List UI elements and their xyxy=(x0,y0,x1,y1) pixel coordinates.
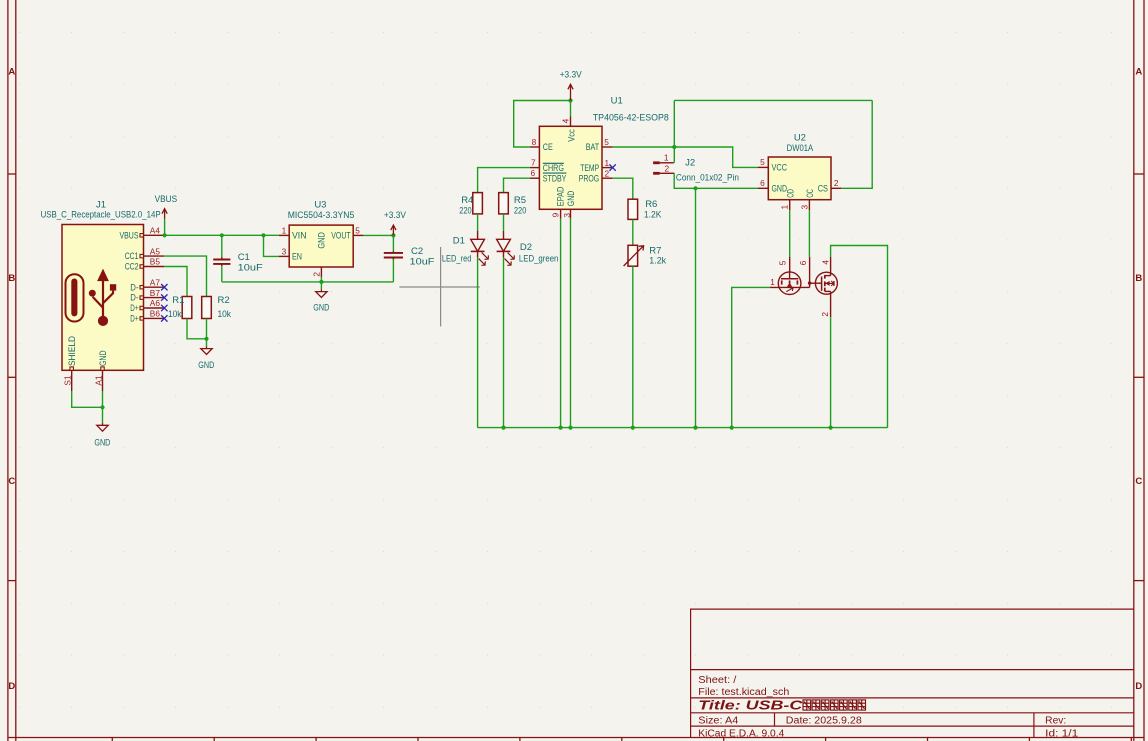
U1 pin 4 Vcc xyxy=(561,116,577,141)
svg-text:S1: S1 xyxy=(63,375,73,386)
LED D1 xyxy=(471,231,489,265)
svg-text:VBUS: VBUS xyxy=(120,230,139,240)
wire FET middle step xyxy=(809,283,811,287)
svg-text:D2: D2 xyxy=(520,242,532,253)
svg-text:D: D xyxy=(8,681,15,692)
wire BAT to U2 VCC xyxy=(613,147,758,167)
svg-text:4: 4 xyxy=(820,260,830,265)
junction BAT at J2 xyxy=(672,145,676,149)
svg-text:STDBY: STDBY xyxy=(543,174,567,184)
svg-text:A: A xyxy=(8,67,15,78)
wire CHRG to R4 xyxy=(478,168,530,193)
wire top loop BAT to CS xyxy=(674,99,872,101)
wire VBUS power stem xyxy=(164,219,166,235)
svg-text:GND: GND xyxy=(317,232,327,249)
svg-text:4: 4 xyxy=(561,118,571,123)
svg-text:VIN: VIN xyxy=(292,231,307,241)
svg-text:6: 6 xyxy=(760,178,765,188)
connector J2 pin 1 xyxy=(653,153,674,163)
no-connect X on J1 pin A7 xyxy=(161,284,167,290)
wire CE to Vcc loop xyxy=(514,101,571,148)
svg-text:1: 1 xyxy=(780,205,790,210)
svg-text:2: 2 xyxy=(834,178,839,188)
junction bus R7 xyxy=(631,426,635,430)
power symbol +3.3V at U3 output xyxy=(391,225,396,235)
svg-text:LED_green: LED_green xyxy=(519,253,559,264)
svg-text:Size: A4: Size: A4 xyxy=(698,715,738,726)
resistor R4 xyxy=(473,193,483,214)
svg-text:B: B xyxy=(8,273,15,284)
junction bus EPAD xyxy=(559,426,563,430)
wire OC red segment to FET middle xyxy=(809,257,811,283)
svg-text:A: A xyxy=(1135,67,1142,78)
J1 pin A1 (GND) xyxy=(94,351,109,392)
svg-text:U1: U1 xyxy=(611,95,623,106)
charger U1 body xyxy=(539,126,602,209)
junction VBUS at C1 xyxy=(220,233,224,237)
svg-text:USB_C_Receptacle_USB2.0_14P: USB_C_Receptacle_USB2.0_14P xyxy=(41,210,161,221)
svg-text:R1: R1 xyxy=(172,295,184,306)
U2 pin 1 OD xyxy=(780,189,796,210)
svg-text:+3.3V: +3.3V xyxy=(560,70,583,80)
svg-text:10k: 10k xyxy=(168,309,182,320)
wire R7 down to bus xyxy=(632,266,634,427)
svg-text:R5: R5 xyxy=(514,195,526,206)
svg-text:TP4056-42-ESOP8: TP4056-42-ESOP8 xyxy=(593,113,669,124)
svg-text:VCC: VCC xyxy=(772,163,788,173)
J1 pin B7 (D-) xyxy=(130,288,164,303)
svg-text:GND: GND xyxy=(94,438,110,448)
svg-text:EPAD: EPAD xyxy=(556,187,566,207)
svg-text:Id: 1/1: Id: 1/1 xyxy=(1045,728,1079,739)
J1 pin B6 (D+) xyxy=(130,309,164,324)
wire bottom bus xyxy=(478,427,888,429)
J1 pin B5 (CC2) xyxy=(125,257,165,272)
LED D2 xyxy=(497,231,515,265)
svg-text:B: B xyxy=(1135,273,1142,284)
svg-text:CE: CE xyxy=(543,142,553,152)
svg-text:Conn_01x02_Pin: Conn_01x02_Pin xyxy=(676,173,739,184)
svg-text:1.2k: 1.2k xyxy=(649,255,666,266)
wire R2 bottom to gnd xyxy=(206,319,208,347)
svg-text:9: 9 xyxy=(550,212,560,217)
capacitor C1 xyxy=(213,235,230,282)
no-connect X on J1 pin A6 xyxy=(161,305,167,311)
svg-text:R4: R4 xyxy=(461,195,473,206)
resistor R7 (variable) xyxy=(628,245,638,266)
U2 pin 6 GND xyxy=(758,178,787,193)
junction bus D2 xyxy=(501,426,505,430)
svg-text:1.2K: 1.2K xyxy=(644,210,662,221)
wire D2 cathode down to bus xyxy=(503,257,505,427)
wire J2 pin1 to BAT node xyxy=(673,100,675,162)
junction bus FET source xyxy=(829,426,833,430)
U3 pin 2 GND xyxy=(311,232,326,277)
svg-text:C: C xyxy=(1135,476,1142,487)
svg-text:220: 220 xyxy=(459,206,472,217)
svg-text:OD: OD xyxy=(785,189,795,198)
title block frame xyxy=(691,609,1134,737)
wire R6 to R7 xyxy=(632,219,634,245)
svg-text:3: 3 xyxy=(799,205,809,210)
svg-text:PROG: PROG xyxy=(579,174,600,184)
cursor crosshair xyxy=(399,247,479,326)
svg-text:VBUS: VBUS xyxy=(155,194,178,204)
J1 pin A7 (D-) xyxy=(130,277,164,292)
svg-text:CC2: CC2 xyxy=(125,262,139,272)
wire CS loop down xyxy=(841,100,872,188)
svg-text:BAT: BAT xyxy=(586,142,600,152)
power symbol +3.3V at U1 xyxy=(568,84,573,100)
junction bus FET gate xyxy=(730,426,734,430)
no-connect X on J1 pin B6 xyxy=(161,315,167,321)
connector J1 body xyxy=(62,225,144,371)
svg-text:B5: B5 xyxy=(150,257,161,267)
svg-text:5: 5 xyxy=(355,225,360,235)
wire STDBY to R5 xyxy=(504,178,530,192)
svg-text:File: test.kicad_sch: File: test.kicad_sch xyxy=(698,687,789,698)
R7 arrow xyxy=(624,246,644,266)
svg-text:J2: J2 xyxy=(685,158,695,169)
svg-text:10k: 10k xyxy=(218,309,232,320)
svg-text:B6: B6 xyxy=(150,309,161,319)
ground symbol below U3 xyxy=(316,289,327,297)
junction +3.3V at U1 Vcc xyxy=(568,98,572,102)
wire left FET gate to bus xyxy=(732,287,770,427)
U1 pin 7 CHRG xyxy=(530,158,564,173)
svg-text:5: 5 xyxy=(760,157,765,167)
svg-text:LED_red: LED_red xyxy=(442,253,472,264)
wire Vcc pin stem xyxy=(570,101,572,117)
resistor R5 xyxy=(499,193,509,214)
resistor R6 xyxy=(628,199,638,219)
svg-text:10uF: 10uF xyxy=(238,262,263,273)
J1 pin A4 (VBUS) xyxy=(120,226,165,241)
junction J2 gnd branch xyxy=(693,186,697,190)
capacitor C2 xyxy=(384,235,403,282)
svg-text:C2: C2 xyxy=(411,246,423,257)
no-connect X on U1 TEMP xyxy=(609,164,615,170)
U1 pin 1 TEMP xyxy=(580,158,612,173)
svg-text:2: 2 xyxy=(664,163,669,173)
transistor Q1 left FET xyxy=(770,257,810,295)
svg-text:6: 6 xyxy=(798,260,808,265)
svg-text:6: 6 xyxy=(530,168,535,178)
wire U3 gnd pin down xyxy=(320,277,322,289)
power symbol VBUS xyxy=(162,209,167,219)
wire VBUS rail to U3 xyxy=(164,234,279,236)
svg-text:A1: A1 xyxy=(94,375,104,386)
junction bus J2 gnd xyxy=(693,426,697,430)
svg-text:Sheet: /: Sheet: / xyxy=(698,675,736,686)
svg-text:MIC5504-3.3YN5: MIC5504-3.3YN5 xyxy=(288,210,355,221)
U1 pin 3 GND xyxy=(562,191,576,219)
wire J1 gnd down xyxy=(102,391,104,423)
svg-text:VOUT: VOUT xyxy=(331,231,351,241)
svg-text:KiCad E.D.A. 9.0.4: KiCad E.D.A. 9.0.4 xyxy=(698,728,784,739)
junction R1 R2 gnd node xyxy=(204,337,208,341)
wire EPAD down to bus xyxy=(560,219,562,428)
junction J1 gnd node xyxy=(100,405,104,409)
svg-text:SHIELD: SHIELD xyxy=(67,336,77,366)
junction U3 gnd rail xyxy=(319,280,323,284)
svg-text:5: 5 xyxy=(604,137,609,147)
U1 pin 9 EPAD xyxy=(550,187,565,219)
svg-text:A7: A7 xyxy=(150,277,161,287)
svg-text:8: 8 xyxy=(532,137,537,147)
U1 pin 6 STDBY xyxy=(530,168,567,183)
svg-text:D+: D+ xyxy=(130,303,138,313)
svg-text:Rev:: Rev: xyxy=(1045,715,1066,726)
svg-text:D-: D- xyxy=(130,293,138,303)
svg-text:D+: D+ xyxy=(130,314,138,324)
J1 USB icon xyxy=(66,269,117,326)
regulator U3 body xyxy=(289,225,353,267)
svg-text:A5: A5 xyxy=(150,246,161,256)
svg-text:2: 2 xyxy=(820,312,830,317)
U2 pin 2 CS xyxy=(818,178,842,193)
wire VOUT to +3.3V node xyxy=(363,234,393,236)
U3 pin 1 VIN xyxy=(279,225,307,240)
junction bus U1 GND xyxy=(568,426,572,430)
wire right FET source to bus xyxy=(830,317,832,428)
svg-text:CS: CS xyxy=(818,184,828,194)
svg-text:1: 1 xyxy=(282,225,287,235)
svg-text:2: 2 xyxy=(604,169,609,179)
svg-text:A4: A4 xyxy=(150,226,161,236)
connector J2 pin 2 xyxy=(653,163,674,173)
svg-text:CC1: CC1 xyxy=(125,251,139,261)
wire PROG to R6 xyxy=(613,178,633,199)
svg-text:D1: D1 xyxy=(453,235,465,246)
svg-text:TEMP: TEMP xyxy=(580,163,599,173)
svg-text:+3.3V: +3.3V xyxy=(384,210,407,220)
svg-text:GND: GND xyxy=(198,360,214,370)
svg-text:CHRG: CHRG xyxy=(543,163,564,173)
ground symbol below J1 xyxy=(97,423,108,431)
U1 pin 2 PROG xyxy=(579,169,613,184)
svg-text:B7: B7 xyxy=(150,288,161,298)
wire D1 resistor to LED xyxy=(477,214,479,231)
wire J1 shield to gnd xyxy=(72,391,103,407)
svg-text:2: 2 xyxy=(311,272,321,277)
J1 pin S1 (SHIELD) xyxy=(63,336,78,391)
junction VBUS EN branch xyxy=(261,233,265,237)
wire CC2 to R1 xyxy=(164,267,187,297)
U1 pin 8 CE xyxy=(530,137,553,152)
svg-text:GND: GND xyxy=(566,191,576,207)
U1 pin 5 BAT xyxy=(586,137,613,152)
svg-text:3: 3 xyxy=(562,213,572,218)
svg-text:10uF: 10uF xyxy=(410,257,435,268)
protection IC U2 body xyxy=(768,157,831,200)
svg-text:1: 1 xyxy=(604,158,609,168)
J1 pin A6 (D+) xyxy=(130,298,164,313)
svg-text:A6: A6 xyxy=(150,298,161,308)
svg-text:C: C xyxy=(8,476,15,487)
wire J2 pin2 to U2 GND xyxy=(674,173,758,188)
wire gnd rail C1 to C2 xyxy=(222,281,394,283)
svg-text:GND: GND xyxy=(98,351,108,367)
wire CC1 to R2 xyxy=(164,256,206,296)
svg-text:Vcc: Vcc xyxy=(566,129,576,142)
title block title text xyxy=(698,698,865,713)
svg-text:Title: USB-C: Title: USB-C xyxy=(698,698,803,713)
resistor R1 xyxy=(182,297,192,319)
junction FET middle node xyxy=(808,281,811,284)
wire D2 resistor to LED xyxy=(503,214,505,231)
U2 pin 3 OC xyxy=(799,189,815,210)
J1 pin A5 (CC1) xyxy=(125,246,165,261)
wire D1 cathode down to bus xyxy=(477,257,479,427)
svg-text:3: 3 xyxy=(282,247,287,257)
U3 pin 5 VOUT xyxy=(331,225,363,240)
wire R1 bottom to gnd node xyxy=(187,319,207,339)
svg-text:EN: EN xyxy=(292,252,302,262)
svg-text:7: 7 xyxy=(531,158,536,168)
svg-text:220: 220 xyxy=(514,205,527,216)
svg-text:1: 1 xyxy=(770,277,775,287)
ground symbol below R2 xyxy=(201,346,212,354)
no-connect X on J1 pin B7 xyxy=(161,294,167,300)
resistor R2 xyxy=(202,297,212,319)
wire EN to VBUS xyxy=(264,235,280,256)
svg-text:D: D xyxy=(1135,681,1142,692)
wire right FET drain loop xyxy=(831,246,888,428)
junction VBUS at J1 pin A4 xyxy=(163,233,167,237)
wire U1 GND down to bus xyxy=(570,219,572,428)
wire OC down xyxy=(808,210,810,257)
wire J2 gnd down to bus xyxy=(695,188,697,427)
svg-text:GND: GND xyxy=(313,303,329,313)
wire OD to FET gate xyxy=(789,210,791,257)
U2 pin 5 VCC xyxy=(758,157,788,172)
svg-text:OC: OC xyxy=(805,189,815,198)
svg-text:D-: D- xyxy=(130,282,138,292)
svg-text:1: 1 xyxy=(664,153,669,163)
junction +3.3V at C2 xyxy=(391,233,395,237)
U3 pin 3 EN xyxy=(279,247,302,262)
svg-text:R6: R6 xyxy=(645,199,657,210)
transistor Q2 right FET xyxy=(798,257,837,317)
svg-text:DW01A: DW01A xyxy=(787,143,814,154)
svg-text:R2: R2 xyxy=(218,295,230,306)
svg-text:5: 5 xyxy=(777,260,787,265)
svg-text:Date: 2025.9.28: Date: 2025.9.28 xyxy=(786,715,862,726)
